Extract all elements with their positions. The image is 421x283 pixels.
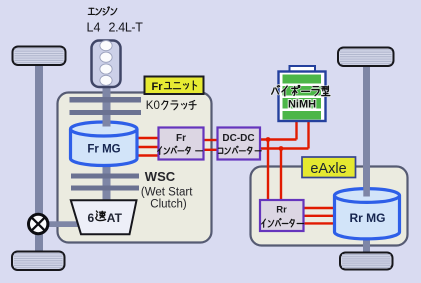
- svg-text:DC-DC: DC-DC: [222, 133, 254, 144]
- svg-text:2.4L-T: 2.4L-T: [109, 21, 144, 35]
- svg-text:Fr: Fr: [176, 133, 186, 144]
- svg-text:Fr MG: Fr MG: [87, 144, 120, 156]
- svg-text:L4: L4: [87, 21, 101, 35]
- svg-text:NiMH: NiMH: [288, 99, 316, 111]
- svg-text:Rr MG: Rr MG: [350, 211, 386, 225]
- svg-text:6: 6: [88, 211, 95, 225]
- svg-text:AT: AT: [107, 211, 123, 225]
- svg-text:Fr: Fr: [152, 81, 164, 93]
- svg-text:Rr: Rr: [276, 205, 287, 216]
- svg-text:(Wet Start: (Wet Start: [141, 186, 193, 198]
- svg-text:eAxle: eAxle: [310, 161, 346, 177]
- svg-text:K0: K0: [146, 100, 160, 112]
- svg-text:WSC: WSC: [145, 169, 176, 184]
- svg-text:Clutch): Clutch): [150, 198, 187, 210]
